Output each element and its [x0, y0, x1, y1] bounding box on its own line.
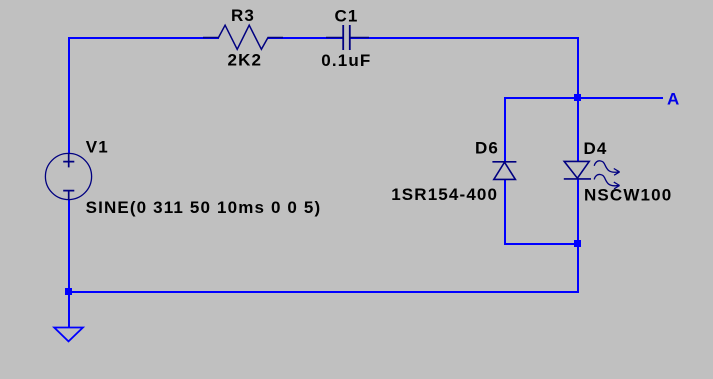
- svg-text:2K2: 2K2: [228, 50, 263, 69]
- junction at bottom of diode pair: [574, 240, 581, 247]
- resistor R3: [203, 25, 283, 49]
- voltage source V1 body: [45, 153, 91, 199]
- svg-text:1SR154-400: 1SR154-400: [391, 185, 498, 204]
- junction at bottom rail / ground: [65, 288, 72, 295]
- svg-text:A: A: [667, 89, 680, 108]
- svg-text:D6: D6: [475, 138, 499, 157]
- wire D4 cathode down to bottom rail and left to V1 bottom: [69, 179, 578, 292]
- wire C1 right plate to top-right corner down to D4 anode: [350, 38, 578, 162]
- svg-text:NSCW100: NSCW100: [584, 186, 672, 205]
- LED light arrow upper: [594, 161, 619, 175]
- diode D6: [492, 162, 516, 180]
- wire ground stem: [68, 292, 70, 328]
- capacitor C1: [326, 25, 369, 50]
- wire R3 right to C1 left plate: [268, 37, 343, 39]
- ground: [54, 328, 83, 342]
- diode D4 (LED): [564, 161, 591, 179]
- junction at node A on D4 branch: [574, 94, 581, 101]
- svg-text:V1: V1: [86, 137, 109, 156]
- wire V1 bottom pin down to bottom rail: [68, 199, 70, 292]
- svg-text:R3: R3: [231, 6, 255, 25]
- svg-text:SINE(0 311 50 10ms 0 0 5): SINE(0 311 50 10ms 0 0 5): [86, 198, 322, 217]
- wire node A horizontal: [505, 97, 663, 99]
- LED light arrow lower: [594, 174, 619, 188]
- wire top-left: V1 top pin up and across to R3 left: [69, 38, 219, 154]
- svg-text:D4: D4: [584, 139, 608, 158]
- svg-text:C1: C1: [335, 7, 359, 26]
- wire D6 upper vertical: [504, 97, 506, 162]
- wire D6 lower vertical to junction under D4: [505, 180, 578, 245]
- svg-text:0.1uF: 0.1uF: [321, 51, 371, 70]
